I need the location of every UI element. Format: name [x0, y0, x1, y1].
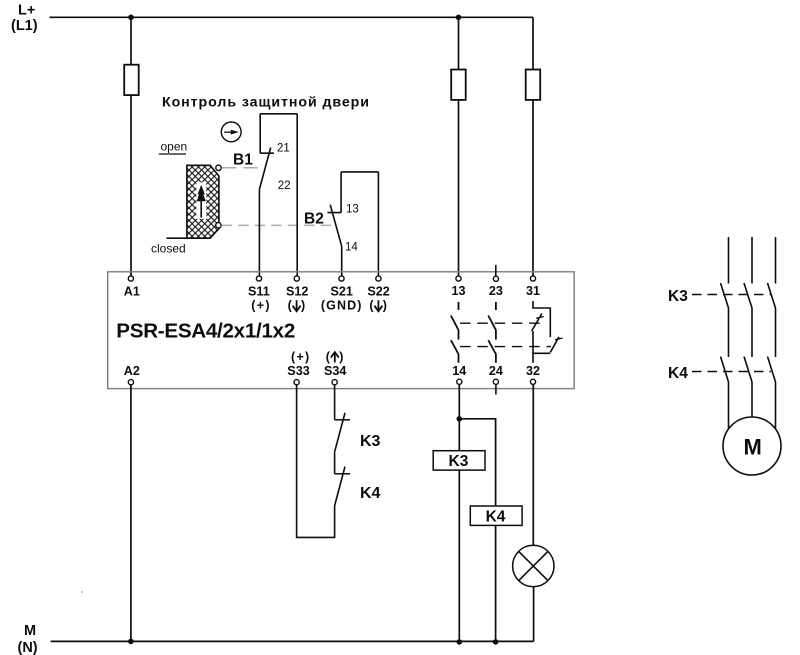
terminal S34 (up) — [332, 380, 337, 385]
lamp H1 — [513, 545, 554, 586]
node 14 branch — [457, 416, 463, 422]
wire between K3/K4 aux — [334, 453, 336, 474]
svg-text:S22: S22 — [367, 284, 389, 298]
svg-text:S34: S34 — [324, 364, 346, 378]
motor M1 — [723, 417, 781, 475]
node door closed contact — [216, 223, 221, 228]
svg-text:(GND): (GND) — [321, 299, 363, 313]
terminal 14 — [457, 379, 462, 384]
terminal 13 — [456, 276, 461, 281]
node junction L+/A1 — [128, 14, 134, 20]
switch B2 (NO 13-14) — [327, 172, 341, 246]
svg-text:B1: B1 — [233, 152, 253, 169]
wires K4 to motor — [729, 382, 776, 429]
svg-text:14: 14 — [452, 364, 466, 378]
wire lamp to M bus — [533, 587, 535, 641]
wires K3 to K4 — [729, 308, 776, 357]
net M bus — [51, 640, 534, 642]
contactor K4 pole 2 — [744, 357, 752, 383]
svg-text:): ) — [383, 299, 387, 313]
wire 14 to M bus — [458, 385, 460, 642]
contact 13-14 (NO x2) — [451, 302, 459, 363]
svg-text:): ) — [339, 350, 343, 364]
terminal 31 — [530, 276, 535, 281]
stray speck — [81, 591, 83, 593]
svg-text:A1: A1 — [124, 284, 140, 298]
node door open contact — [216, 165, 221, 170]
fuse F1 — [124, 65, 139, 95]
wire L+ bus — [50, 16, 534, 18]
contactor K4 pole 3 — [768, 357, 776, 383]
svg-text:K3: K3 — [360, 433, 381, 450]
wire B1 top loop (S11 blade to top to S12) — [259, 114, 297, 278]
terminal S33 (+) — [294, 380, 299, 385]
svg-text:14: 14 — [345, 241, 358, 253]
svg-text:(+): (+) — [291, 350, 311, 364]
svg-text:Контроль защитной двери: Контроль защитной двери — [162, 94, 369, 110]
contactor K4 pole 1 — [721, 357, 729, 383]
svg-text:(L1): (L1) — [11, 18, 38, 34]
terminal S22 (down) — [376, 276, 381, 281]
svg-text:S21: S21 — [331, 284, 353, 298]
terminal 24 — [493, 379, 498, 384]
wire 24 stub — [495, 384, 497, 394]
switch B1 (NC 21-22) — [259, 114, 274, 190]
svg-text:K3: K3 — [668, 288, 688, 305]
contactor K3 pole 1 — [721, 237, 729, 308]
link K3 (dashed) — [692, 294, 771, 296]
relay box PSR-ESA4 — [108, 272, 575, 389]
wire A2 to M bus — [130, 385, 132, 642]
node junction L+/13 — [456, 14, 462, 20]
door arrow — [196, 182, 206, 219]
svg-text:23: 23 — [489, 284, 503, 298]
contactor K3 pole 2 — [744, 237, 752, 308]
svg-text:K4: K4 — [486, 508, 506, 525]
svg-text:L+: L+ — [18, 3, 35, 19]
svg-text:K4: K4 — [360, 485, 381, 502]
terminal S12 (down) — [294, 276, 299, 281]
svg-text:13: 13 — [346, 204, 359, 216]
coil K4 — [470, 506, 522, 525]
svg-text:13: 13 — [452, 284, 466, 298]
svg-text:S33: S33 — [287, 364, 309, 378]
link door to B2 (dashed) — [222, 224, 333, 226]
svg-text:closed: closed — [151, 242, 186, 256]
fuse F2 — [451, 70, 466, 100]
svg-text:21: 21 — [277, 143, 290, 155]
svg-text:22: 22 — [278, 180, 291, 192]
node junction M/K4 — [493, 639, 499, 645]
svg-text:K4: K4 — [668, 365, 688, 382]
svg-text:31: 31 — [526, 284, 540, 298]
contact 23-24 (NO x2) — [488, 302, 496, 363]
wire S33 feedback loop — [297, 385, 335, 538]
open underline — [159, 153, 186, 155]
svg-text:24: 24 — [489, 364, 503, 378]
terminal S11 (+) — [256, 276, 261, 281]
svg-text:K3: K3 — [449, 453, 469, 470]
wire B2 loop (S21 blade to top to S22) — [341, 172, 378, 276]
svg-text:): ) — [301, 299, 305, 313]
svg-text:A2: A2 — [124, 364, 140, 378]
svg-text:M: M — [24, 623, 36, 639]
coil K3 — [433, 451, 485, 470]
svg-text:M: M — [744, 435, 762, 460]
linkage dashes row 2 — [460, 346, 551, 348]
svg-text:32: 32 — [526, 364, 540, 378]
wire 32 to lamp — [532, 384, 534, 545]
terminal 32 — [530, 379, 535, 384]
wire S34 drop — [334, 385, 336, 420]
contactor K3 pole 3 — [768, 237, 776, 308]
wire 13 drop — [458, 17, 460, 276]
link K4 (dashed) — [692, 371, 771, 373]
door (hatched) — [167, 165, 219, 238]
terminal S21 (GND) — [339, 276, 344, 281]
node junction M/14 — [457, 639, 463, 645]
wire branch to K4 coil — [459, 419, 495, 642]
fuse F3 — [526, 70, 541, 100]
contact 31-32 (NC x2) — [532, 301, 563, 363]
wire 31 drop — [532, 17, 534, 276]
svg-text:PSR-ESA4/2x1/1x2: PSR-ESA4/2x1/1x2 — [116, 320, 295, 343]
svg-text:S11: S11 — [248, 284, 270, 298]
svg-text:(+): (+) — [251, 299, 271, 313]
svg-text:(N): (N) — [18, 640, 38, 655]
node junction M/A2 — [128, 639, 134, 645]
terminal A1 — [128, 276, 133, 281]
wire stub above 23 — [495, 265, 497, 276]
rotation indicator — [221, 122, 241, 142]
svg-text:open: open — [161, 140, 188, 154]
svg-text:S12: S12 — [286, 284, 308, 298]
contact K3 aux (NO) — [334, 413, 350, 453]
wire A1 drop — [130, 17, 132, 276]
terminal A2 — [128, 380, 133, 385]
svg-text:B2: B2 — [304, 211, 324, 228]
link door to B1 (dashed) — [222, 167, 260, 169]
contact K4 aux (NO) — [334, 467, 350, 507]
linkage dashes row 1 — [460, 322, 545, 324]
terminal 23 — [493, 276, 498, 281]
